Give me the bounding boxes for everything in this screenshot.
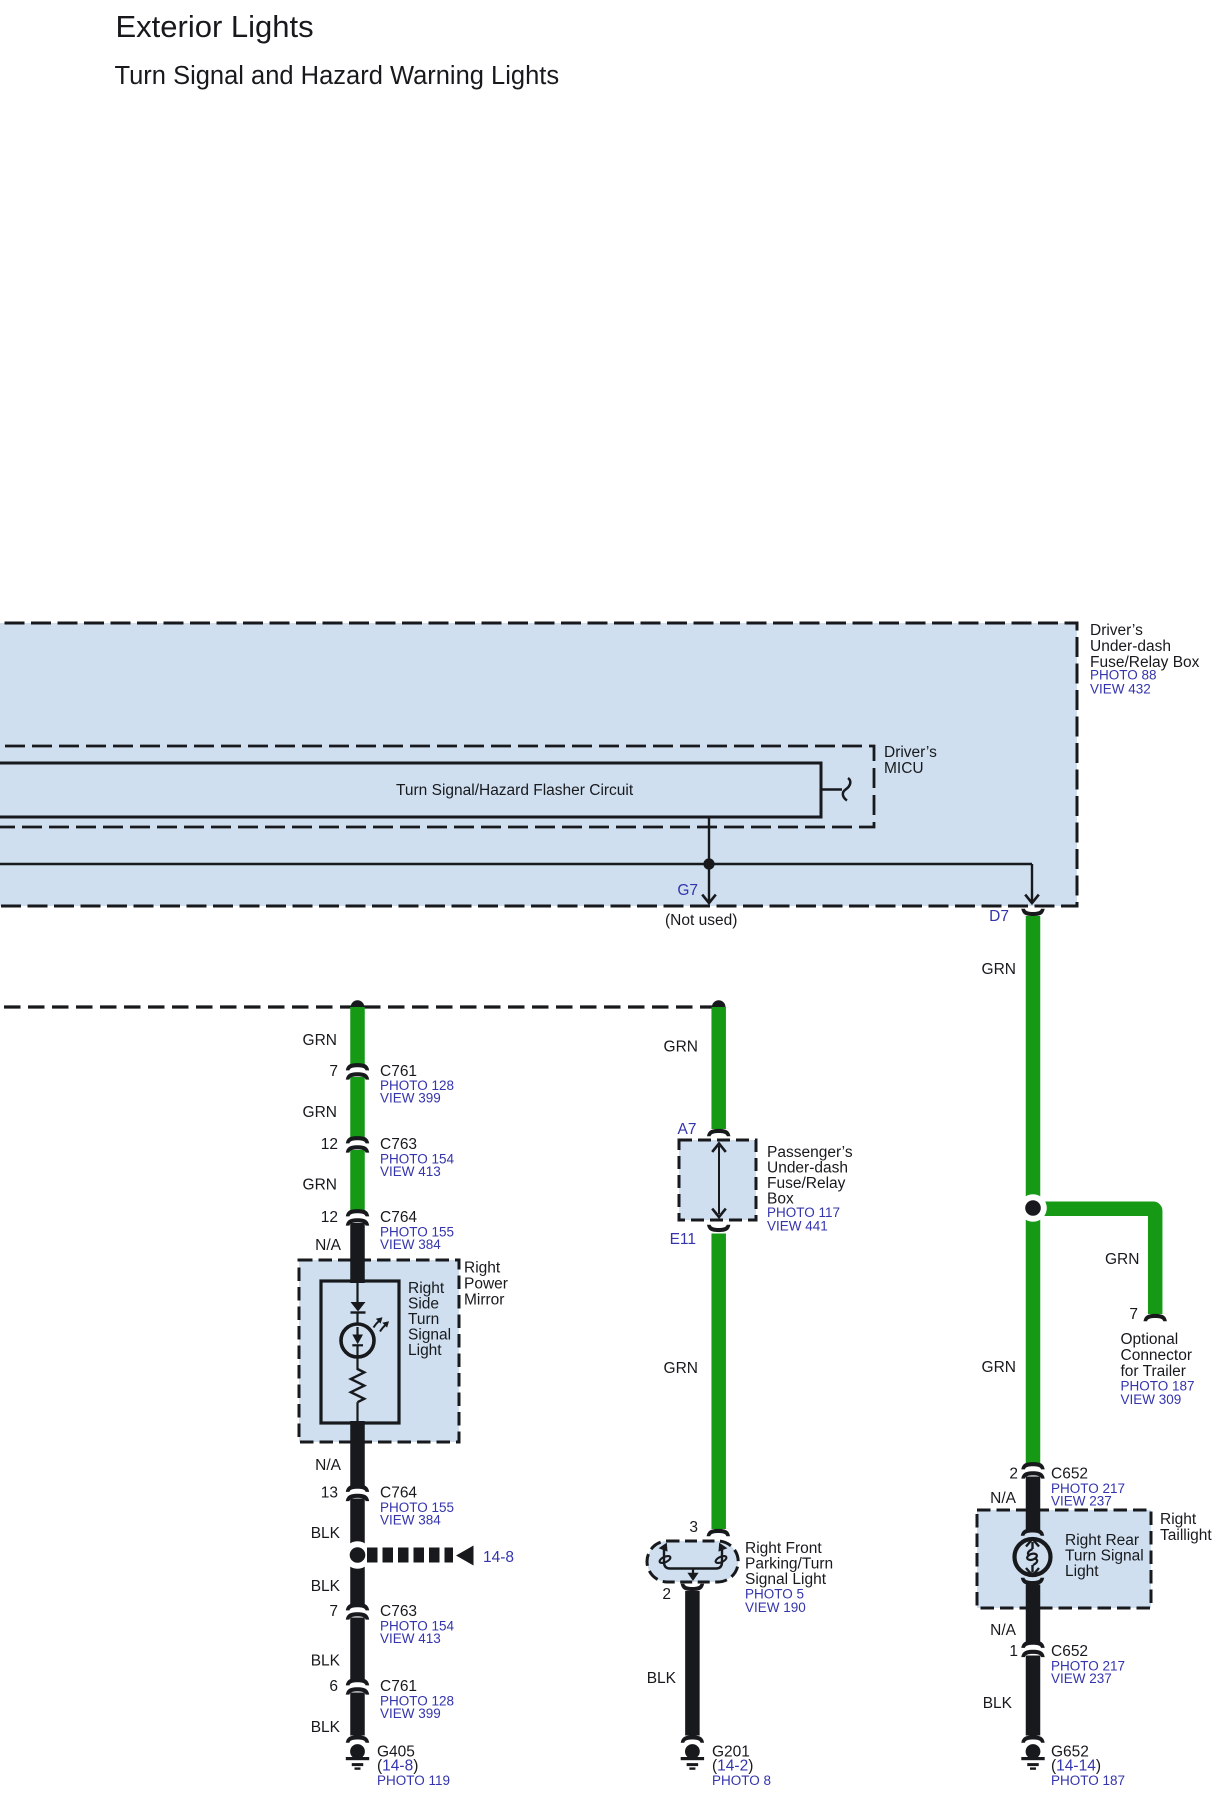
svg-text:GRN: GRN bbox=[303, 1032, 337, 1049]
svg-text:BLK: BLK bbox=[983, 1695, 1013, 1712]
svg-text:Right: Right bbox=[1160, 1511, 1197, 1528]
svg-text:GRN: GRN bbox=[664, 1039, 698, 1056]
svg-text:C764: C764 bbox=[380, 1485, 417, 1502]
svg-text:BLK: BLK bbox=[311, 1653, 341, 1670]
svg-text:3: 3 bbox=[689, 1519, 698, 1536]
svg-text:Right: Right bbox=[408, 1280, 445, 1297]
svg-text:Driver’s: Driver’s bbox=[884, 744, 937, 761]
svg-text:C763: C763 bbox=[380, 1136, 417, 1153]
svg-text:GRN: GRN bbox=[1105, 1251, 1139, 1268]
svg-text:VIEW 399: VIEW 399 bbox=[380, 1706, 441, 1721]
svg-text:C764: C764 bbox=[380, 1209, 417, 1226]
svg-text:7: 7 bbox=[1129, 1306, 1138, 1323]
svg-text:Turn Signal: Turn Signal bbox=[1065, 1548, 1144, 1565]
svg-text:Signal Light: Signal Light bbox=[745, 1571, 827, 1588]
svg-text:Right: Right bbox=[464, 1260, 501, 1277]
svg-text:C763: C763 bbox=[380, 1603, 417, 1620]
svg-text:1: 1 bbox=[1009, 1643, 1018, 1660]
svg-text:A7: A7 bbox=[678, 1121, 697, 1138]
svg-text:7: 7 bbox=[329, 1063, 338, 1080]
svg-text:VIEW 399: VIEW 399 bbox=[380, 1091, 441, 1106]
svg-text:Power: Power bbox=[464, 1276, 508, 1293]
svg-text:Optional: Optional bbox=[1121, 1331, 1179, 1348]
svg-text:BLK: BLK bbox=[311, 1578, 341, 1595]
svg-text:Turn Signal and Hazard Warning: Turn Signal and Hazard Warning Lights bbox=[115, 62, 560, 90]
svg-text:2: 2 bbox=[1009, 1466, 1018, 1483]
svg-text:PHOTO 88: PHOTO 88 bbox=[1090, 668, 1157, 683]
svg-text:(14-2): (14-2) bbox=[712, 1758, 753, 1775]
svg-text:C652: C652 bbox=[1051, 1466, 1088, 1483]
svg-text:Exterior Lights: Exterior Lights bbox=[116, 9, 314, 44]
svg-text:VIEW 432: VIEW 432 bbox=[1090, 682, 1151, 697]
svg-text:C652: C652 bbox=[1051, 1643, 1088, 1660]
svg-text:N/A: N/A bbox=[315, 1237, 342, 1254]
svg-text:E11: E11 bbox=[670, 1231, 696, 1248]
svg-text:VIEW 384: VIEW 384 bbox=[380, 1237, 441, 1252]
svg-text:C761: C761 bbox=[380, 1678, 417, 1695]
svg-text:Under-dash: Under-dash bbox=[767, 1160, 848, 1177]
svg-text:BLK: BLK bbox=[311, 1719, 341, 1736]
svg-text:GRN: GRN bbox=[664, 1360, 698, 1377]
svg-text:Right Rear: Right Rear bbox=[1065, 1532, 1139, 1549]
svg-text:PHOTO 8: PHOTO 8 bbox=[712, 1773, 771, 1788]
svg-text:VIEW 413: VIEW 413 bbox=[380, 1164, 441, 1179]
svg-text:Turn: Turn bbox=[408, 1311, 439, 1328]
svg-text:12: 12 bbox=[321, 1209, 338, 1226]
svg-text:MICU: MICU bbox=[884, 760, 924, 777]
svg-text:VIEW 309: VIEW 309 bbox=[1121, 1392, 1182, 1407]
svg-text:GRN: GRN bbox=[303, 1104, 337, 1121]
svg-text:N/A: N/A bbox=[990, 1622, 1017, 1639]
svg-text:N/A: N/A bbox=[315, 1457, 342, 1474]
svg-text:(Not used): (Not used) bbox=[665, 912, 737, 929]
svg-text:VIEW 237: VIEW 237 bbox=[1051, 1494, 1112, 1509]
svg-text:Taillight: Taillight bbox=[1160, 1527, 1212, 1544]
svg-text:12: 12 bbox=[321, 1136, 338, 1153]
svg-text:PHOTO 119: PHOTO 119 bbox=[377, 1773, 450, 1788]
svg-text:14-8: 14-8 bbox=[483, 1549, 514, 1566]
svg-text:VIEW 237: VIEW 237 bbox=[1051, 1671, 1112, 1686]
svg-text:D7: D7 bbox=[989, 908, 1009, 925]
svg-text:Light: Light bbox=[1065, 1563, 1099, 1580]
svg-text:6: 6 bbox=[329, 1678, 338, 1695]
svg-text:BLK: BLK bbox=[311, 1525, 341, 1542]
svg-text:Side: Side bbox=[408, 1296, 439, 1313]
svg-text:13: 13 bbox=[321, 1485, 338, 1502]
svg-text:VIEW 384: VIEW 384 bbox=[380, 1513, 441, 1528]
svg-text:7: 7 bbox=[329, 1603, 338, 1620]
svg-text:Under-dash: Under-dash bbox=[1090, 638, 1171, 655]
svg-text:(14-14): (14-14) bbox=[1051, 1758, 1101, 1775]
svg-text:Turn Signal/Hazard Flasher Cir: Turn Signal/Hazard Flasher Circuit bbox=[396, 782, 634, 799]
svg-text:Signal: Signal bbox=[408, 1327, 451, 1344]
svg-text:2: 2 bbox=[662, 1586, 671, 1603]
svg-text:Light: Light bbox=[408, 1342, 442, 1359]
svg-text:VIEW 441: VIEW 441 bbox=[767, 1219, 828, 1234]
svg-text:Connector: Connector bbox=[1121, 1347, 1193, 1364]
svg-text:Right Front: Right Front bbox=[745, 1540, 822, 1557]
svg-text:PHOTO 187: PHOTO 187 bbox=[1051, 1773, 1125, 1788]
svg-text:GRN: GRN bbox=[303, 1177, 337, 1194]
svg-text:BLK: BLK bbox=[647, 1670, 677, 1687]
svg-text:VIEW 413: VIEW 413 bbox=[380, 1631, 441, 1646]
svg-text:Fuse/Relay: Fuse/Relay bbox=[767, 1175, 846, 1192]
svg-text:Parking/Turn: Parking/Turn bbox=[745, 1556, 833, 1573]
svg-text:Driver’s: Driver’s bbox=[1090, 622, 1143, 639]
svg-text:G7: G7 bbox=[677, 882, 698, 899]
svg-text:GRN: GRN bbox=[982, 961, 1016, 978]
svg-text:N/A: N/A bbox=[990, 1490, 1017, 1507]
svg-text:Mirror: Mirror bbox=[464, 1292, 504, 1309]
svg-text:Passenger’s: Passenger’s bbox=[767, 1144, 853, 1161]
svg-text:GRN: GRN bbox=[982, 1359, 1016, 1376]
svg-text:for Trailer: for Trailer bbox=[1121, 1363, 1186, 1380]
svg-text:VIEW 190: VIEW 190 bbox=[745, 1600, 806, 1615]
svg-text:(14-8): (14-8) bbox=[377, 1758, 418, 1775]
